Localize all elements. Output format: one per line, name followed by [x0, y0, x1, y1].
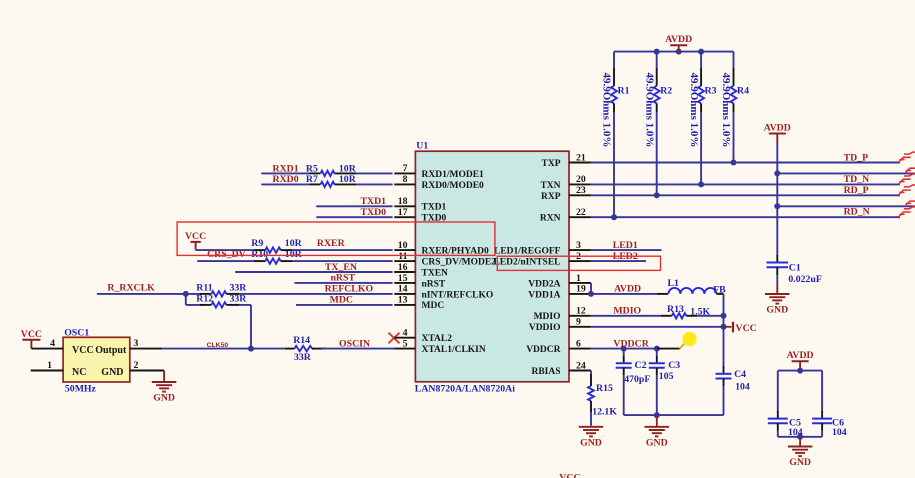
svg-text:TX_EN: TX_EN	[325, 262, 357, 273]
svg-text:Output: Output	[95, 345, 127, 356]
svg-text:RXD0: RXD0	[273, 174, 299, 185]
svg-text:15: 15	[398, 273, 408, 284]
svg-text:GND: GND	[580, 437, 602, 448]
svg-text:C1: C1	[789, 263, 801, 274]
svg-text:10R: 10R	[339, 163, 357, 174]
svg-text:CRS_DV: CRS_DV	[207, 249, 246, 260]
svg-text:NC: NC	[72, 367, 86, 378]
svg-text:104: 104	[788, 427, 803, 438]
svg-text:R10: R10	[251, 249, 268, 260]
svg-text:TXD1: TXD1	[422, 203, 447, 213]
svg-text:OSCIN: OSCIN	[339, 338, 370, 349]
svg-text:TXP: TXP	[542, 159, 561, 169]
svg-text:GND: GND	[789, 457, 811, 468]
svg-text:104: 104	[735, 382, 750, 393]
svg-text:R1: R1	[618, 86, 630, 97]
svg-text:22: 22	[576, 207, 586, 218]
svg-text:TXEN: TXEN	[422, 268, 449, 278]
svg-text:R13: R13	[667, 304, 684, 315]
svg-text:LED2/nINTSEL: LED2/nINTSEL	[493, 257, 560, 267]
svg-text:AVDD: AVDD	[787, 350, 814, 361]
svg-text:LAN8720A/LAN8720Ai: LAN8720A/LAN8720Ai	[415, 384, 515, 395]
svg-text:TXD1: TXD1	[361, 196, 387, 207]
svg-text:23: 23	[576, 185, 586, 196]
svg-text:21: 21	[576, 152, 586, 163]
svg-text:VCC: VCC	[559, 473, 580, 478]
svg-text:MDC: MDC	[422, 301, 445, 311]
svg-text:VCC: VCC	[72, 345, 94, 356]
svg-text:49.9Ohms 1.0%: 49.9Ohms 1.0%	[688, 73, 700, 148]
svg-text:RXD1/MODE1: RXD1/MODE1	[422, 170, 485, 180]
svg-text:11: 11	[398, 251, 407, 262]
svg-text:VDD2A: VDD2A	[528, 279, 560, 289]
svg-text:R4: R4	[737, 86, 749, 97]
svg-text:C3: C3	[668, 360, 680, 371]
svg-text:VCC: VCC	[21, 329, 42, 340]
svg-text:LED1: LED1	[613, 240, 638, 251]
svg-text:9: 9	[576, 317, 581, 328]
svg-text:104: 104	[832, 427, 847, 438]
svg-text:MDIO: MDIO	[613, 306, 641, 317]
svg-text:GND: GND	[766, 305, 788, 316]
svg-text:R7: R7	[306, 174, 318, 185]
svg-text:VDDIO: VDDIO	[529, 323, 561, 333]
svg-text:TXN: TXN	[540, 181, 560, 191]
svg-text:VCC: VCC	[185, 231, 206, 242]
svg-text:10: 10	[398, 240, 408, 251]
svg-text:4: 4	[403, 328, 408, 339]
svg-text:XTAL2: XTAL2	[422, 334, 453, 344]
svg-text:470pF: 470pF	[624, 374, 650, 385]
svg-text:TD_P: TD_P	[844, 152, 869, 163]
svg-text:VDDCR: VDDCR	[526, 345, 560, 355]
svg-text:OSC1: OSC1	[64, 327, 89, 338]
svg-text:VCC: VCC	[736, 323, 757, 334]
svg-text:TXD0: TXD0	[361, 207, 387, 218]
svg-text:49.9Ohms 1.0%: 49.9Ohms 1.0%	[643, 73, 655, 148]
svg-text:3: 3	[576, 240, 581, 251]
svg-text:CLK50: CLK50	[207, 342, 229, 349]
svg-text:R12: R12	[196, 294, 213, 305]
svg-text:RXP: RXP	[541, 192, 561, 202]
svg-text:nRST: nRST	[330, 273, 355, 284]
svg-text:RXER: RXER	[317, 238, 346, 249]
svg-text:CRS_DV/MODE2: CRS_DV/MODE2	[422, 257, 497, 267]
svg-text:20: 20	[576, 174, 586, 185]
svg-text:U1: U1	[416, 141, 428, 152]
svg-text:R11: R11	[196, 283, 212, 294]
svg-text:105: 105	[659, 371, 674, 382]
svg-text:R14: R14	[293, 335, 310, 346]
svg-text:10R: 10R	[339, 174, 357, 185]
svg-text:VDDCR: VDDCR	[613, 338, 649, 349]
svg-text:GND: GND	[646, 437, 668, 448]
svg-text:33R: 33R	[230, 283, 248, 294]
svg-text:L1: L1	[668, 278, 680, 289]
svg-text:14: 14	[398, 284, 408, 295]
svg-text:24: 24	[576, 360, 586, 371]
svg-text:GND: GND	[101, 367, 123, 378]
svg-text:0.022uF: 0.022uF	[788, 274, 821, 285]
svg-text:8: 8	[403, 174, 408, 185]
svg-text:RD_N: RD_N	[844, 206, 870, 217]
svg-text:3: 3	[134, 338, 139, 349]
svg-text:LED1/REGOFF: LED1/REGOFF	[494, 247, 561, 257]
svg-text:7: 7	[403, 163, 408, 174]
svg-text:2: 2	[134, 360, 139, 371]
svg-text:4: 4	[50, 338, 55, 349]
svg-text:R2: R2	[660, 86, 672, 97]
svg-text:GND: GND	[153, 393, 175, 404]
svg-text:50MHz: 50MHz	[65, 383, 97, 394]
svg-text:AVDD: AVDD	[614, 284, 641, 295]
svg-text:RXD1: RXD1	[273, 163, 299, 174]
svg-text:R5: R5	[306, 163, 318, 174]
svg-text:MDIO: MDIO	[534, 312, 561, 322]
svg-text:RBIAS: RBIAS	[531, 367, 560, 377]
svg-text:33R: 33R	[294, 352, 312, 363]
svg-text:19: 19	[576, 284, 586, 295]
svg-text:13: 13	[398, 295, 408, 306]
svg-text:5: 5	[403, 338, 408, 349]
svg-text:1: 1	[47, 360, 52, 371]
svg-text:REFCLKO: REFCLKO	[325, 284, 374, 295]
svg-text:R_RXCLK: R_RXCLK	[107, 283, 155, 294]
svg-text:R3: R3	[705, 86, 717, 97]
svg-text:10R: 10R	[285, 238, 303, 249]
svg-text:MDC: MDC	[330, 295, 353, 306]
svg-text:C2: C2	[635, 360, 647, 371]
svg-text:AVDD: AVDD	[665, 34, 692, 45]
svg-text:1.5K: 1.5K	[690, 307, 710, 318]
svg-text:RXD0/MODE0: RXD0/MODE0	[422, 181, 485, 191]
svg-text:R15: R15	[596, 383, 613, 394]
svg-text:17: 17	[398, 207, 408, 218]
svg-text:TD_N: TD_N	[844, 174, 870, 185]
svg-text:nRST: nRST	[422, 279, 446, 289]
svg-text:18: 18	[398, 196, 408, 207]
svg-text:XTAL1/CLKIN: XTAL1/CLKIN	[422, 345, 486, 355]
svg-text:6: 6	[576, 338, 581, 349]
svg-text:10R: 10R	[285, 249, 303, 260]
svg-text:RXN: RXN	[540, 214, 561, 224]
svg-text:C4: C4	[734, 369, 746, 380]
svg-text:nINT/REFCLKO: nINT/REFCLKO	[422, 290, 494, 300]
svg-text:49.9Ohms 1.0%: 49.9Ohms 1.0%	[720, 73, 732, 148]
svg-text:49.9Ohms 1.0%: 49.9Ohms 1.0%	[601, 73, 613, 148]
svg-text:12: 12	[576, 306, 586, 317]
svg-text:16: 16	[398, 262, 408, 273]
svg-text:1: 1	[576, 273, 581, 284]
svg-text:AVDD: AVDD	[764, 123, 791, 134]
svg-text:RD_P: RD_P	[844, 185, 869, 196]
svg-text:12.1K: 12.1K	[592, 406, 617, 417]
svg-text:VDD1A: VDD1A	[528, 290, 560, 300]
svg-text:33R: 33R	[230, 294, 248, 305]
svg-text:R9: R9	[251, 238, 263, 249]
